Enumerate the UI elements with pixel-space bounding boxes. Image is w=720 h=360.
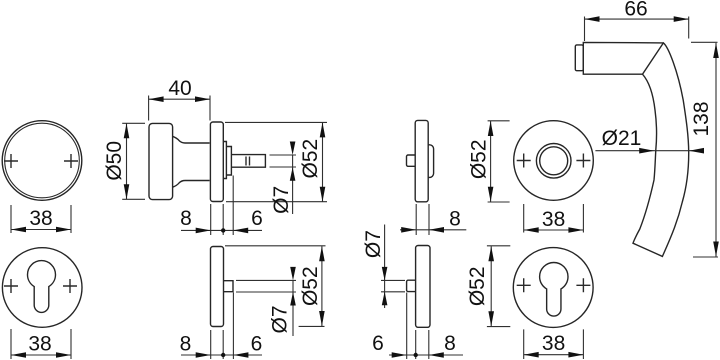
arrow 6 [392,352,407,358]
lever handle front view right [575,0,719,257]
arrow at inner curve [639,148,654,154]
dim O7 ext lines [236,280,296,292]
dim O52 bottom ext [299,325,325,327]
dim 38 line [524,354,584,356]
arrow 6 [233,228,248,234]
arrow top [319,246,325,261]
arrow bottom [713,242,719,257]
rose plate [211,247,224,327]
arrow top [124,123,130,138]
dim O7 extension lines [270,155,297,167]
dim 138 ext lines [691,42,718,257]
dim 8 ext lines [416,204,429,235]
arrow bottom [488,187,494,202]
arrow up [382,292,388,306]
arrow right [195,96,210,102]
arrow left [585,16,600,22]
arrow left [11,227,26,233]
rose plate [415,120,428,201]
dim O7 ext lines [381,280,405,291]
arrow 8 [429,352,444,358]
dim O21 leader [595,150,703,152]
screw cross right [576,278,590,292]
svg-text:Ø50: Ø50 [103,141,126,181]
dim 6-8 ext lines [407,293,429,360]
keyhole [28,261,56,313]
screw cross left [4,279,18,293]
arrow top [320,122,326,137]
knob side view top-middle [103,77,327,235]
arrow down [290,142,296,156]
dim O50 line [126,123,128,199]
dim 66 ext lines [585,17,689,42]
svg-text:66: 66 [624,0,647,20]
svg-text:8: 8 [444,332,456,355]
arrow top [713,43,719,58]
pin stub [224,281,234,292]
arrow left [524,352,539,358]
knob neck [173,136,210,187]
dim 40 extension lines [149,96,210,121]
hub ring inner [540,147,568,175]
spindle [231,155,265,168]
dim 6-8 line [389,354,463,356]
arrow bottom [319,311,325,326]
dim 38 line [524,229,584,231]
svg-text:8: 8 [449,208,461,231]
svg-text:Ø52: Ø52 [299,266,322,306]
arrow right [674,16,689,22]
hub ring outer [536,144,571,179]
dim O52 ext lines [488,121,510,202]
screw cross left [517,278,531,292]
dim O52 ext lines [487,246,510,327]
dim 138 line [715,43,717,257]
neck cap [575,45,583,71]
escutcheon circle [513,248,593,328]
junction dot [414,353,418,357]
pin left [407,280,416,291]
arrow right [56,352,71,358]
escutcheon front view bottom-right [513,248,593,359]
screw cross right [576,154,590,168]
spindle dashes [246,157,250,166]
dim 8-6 line [181,354,262,356]
junction dot [221,353,225,357]
dim 38 line [11,354,71,356]
lever grip [633,43,689,257]
dim O52 top ext [225,245,326,247]
arrow up [290,292,296,306]
arrow top [488,246,494,261]
arrow left [149,96,164,102]
svg-text:38: 38 [542,332,565,355]
screw cross right [63,279,77,293]
rose plate [416,246,430,328]
svg-text:38: 38 [542,208,565,231]
svg-text:Ø21: Ø21 [602,127,642,150]
dim O52 line [490,246,492,326]
arrow bottom [488,311,494,326]
pin left [407,155,416,166]
dim 40 line [149,98,210,100]
hub flange A [223,142,226,179]
knob rose front view top-right [514,121,594,233]
dim 38 line [11,229,71,231]
arrow at outer curve [689,148,704,154]
svg-text:8: 8 [180,333,192,356]
svg-text:138: 138 [690,101,713,136]
svg-text:Ø7: Ø7 [269,305,292,333]
dim 66 line [585,18,689,20]
dim 38 extension lines [11,329,71,359]
arrow up [290,167,296,181]
arrow 6 [233,352,248,358]
arrow down [382,267,388,281]
screw cross left [4,154,18,168]
arrow bottom [320,187,326,202]
dim O52 line [321,246,323,326]
arrow right [568,227,583,233]
svg-text:6: 6 [251,333,263,356]
dim O7 leader [292,280,294,336]
arrow 8 [196,352,211,358]
arrow left [11,352,26,358]
dim 8-6 extension lines [211,176,234,236]
screw cross right [64,154,78,168]
dim 8 line [400,229,466,231]
escutcheon circle [2,248,82,328]
clip bump right [428,145,433,178]
rose outer circle [514,121,594,201]
hub flange B [226,147,231,176]
arrow down [290,267,296,281]
knob head [149,123,173,199]
keyhole [540,263,568,317]
dim 38 extension lines [11,205,71,233]
dim O7 leader [292,155,294,214]
arrow right [56,227,71,233]
escutcheon front view bottom-left [2,248,82,359]
dim 8-6 line [181,229,262,231]
arrow top [488,121,494,136]
arrow bottom [124,184,130,199]
svg-text:8: 8 [180,207,192,230]
dim O52 line [322,122,324,201]
arrow right outside [429,227,444,233]
svg-text:38: 38 [29,207,52,230]
rose inner rim circle [5,123,80,198]
lever neck [583,42,663,74]
svg-text:Ø52: Ø52 [466,266,489,306]
svg-text:Ø52: Ø52 [299,139,322,179]
svg-text:Ø7: Ø7 [362,230,385,258]
knob rose side view top-4th [400,120,510,235]
arrow 8 [196,228,211,234]
svg-text:40: 40 [168,77,191,100]
arrow left outside [401,227,416,233]
dim 38 ext lines [524,329,584,359]
key rose side view bottom-4th [362,225,510,360]
svg-text:Ø7: Ø7 [270,186,293,214]
dim 8-6 ext lines [211,293,234,360]
dim O7 leader [384,225,386,309]
dim O52 line [490,121,492,202]
svg-text:Ø52: Ø52 [467,139,490,179]
junction dot [221,228,225,232]
rose front view top-left [2,121,82,233]
svg-text:6: 6 [251,207,263,230]
dim O52 extension lines [225,122,327,201]
arrow left [524,227,539,233]
rose outer circle [2,121,82,201]
arrow right [568,352,583,358]
dim O50 extension lines [122,123,145,199]
dim 38 ext lines [524,204,584,233]
screw cross left [517,154,531,168]
svg-text:38: 38 [28,333,51,356]
svg-text:6: 6 [372,332,384,355]
knob rose plate [210,122,223,202]
key rose side view bottom-middle [180,246,326,359]
